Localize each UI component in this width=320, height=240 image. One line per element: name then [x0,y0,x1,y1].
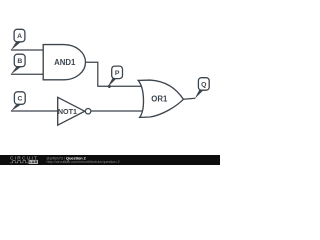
node A (input tag) [11,29,25,50]
svg-text:OR1: OR1 [151,95,168,104]
wire C [11,110,58,112]
svg-text:AND1: AND1 [54,58,76,67]
svg-text:P: P [115,70,120,77]
node Q (output tag) [195,78,210,99]
node B (input tag) [11,54,25,74]
node C (input tag) [11,92,25,111]
svg-text:A: A [17,33,22,40]
NOT1 inversion bubble [85,108,91,114]
svg-text:B: B [17,58,22,65]
wire AND1 output to OR1 top input [86,62,144,86]
svg-text:C: C [17,96,22,103]
wire B [11,73,43,75]
wire NOT1 output to OR1 bottom input [91,110,144,112]
svg-text:NOT1: NOT1 [58,107,77,116]
svg-text:Q: Q [201,81,206,88]
OR gate OR1 [138,80,183,117]
wire OR1 output [183,98,195,99]
wire A [11,49,43,51]
footer bar [0,155,220,165]
AND gate AND1 [43,45,85,80]
CircuitLab logo: LAB box [29,160,38,164]
NOT gate NOT1 (inverter triangle) [58,97,85,125]
node P (tag on wire) [108,66,123,88]
svg-text:http://circuitlab.com/circuit/: http://circuitlab.com/circuit/6nrb4e/que… [47,160,120,164]
CircuitLab logo: waveform [10,161,28,163]
svg-text:LAB: LAB [29,160,37,164]
